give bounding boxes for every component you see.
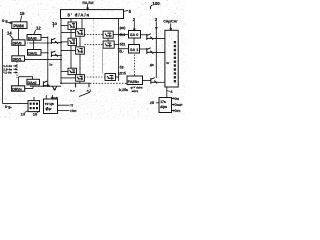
right bus xyxy=(155,29,157,78)
chain wire M2-M3 xyxy=(102,48,104,73)
label BL xyxy=(119,50,124,54)
label 10 xyxy=(52,21,57,26)
text DAC0 xyxy=(28,36,37,40)
switch box M2 xyxy=(103,41,114,48)
chain wire R1-R2 xyxy=(79,36,81,47)
wire DAC1 out xyxy=(41,52,48,54)
label B2 xyxy=(120,66,125,70)
box DRV0 xyxy=(12,40,25,46)
left bus horizontal to box13 xyxy=(2,102,28,104)
box DRV1 xyxy=(12,56,25,61)
transistor Qa xyxy=(51,38,58,44)
label 14 xyxy=(7,31,12,36)
tap wire R3 xyxy=(61,77,76,79)
label 1n xyxy=(49,63,52,67)
wire Qb to bus xyxy=(59,54,61,56)
switch glyph L2 xyxy=(70,40,76,45)
glyph row1 U16 xyxy=(45,102,55,106)
label 15 xyxy=(20,11,25,16)
tap wire L2 xyxy=(61,41,68,43)
arrow 3 down xyxy=(155,21,157,29)
switch glyph R2 xyxy=(77,49,83,54)
wire tall box to 17a xyxy=(166,87,168,98)
node label HQ xyxy=(70,89,75,93)
label L0 xyxy=(120,33,126,37)
arrow CAp down xyxy=(170,23,172,30)
wire DRV0 out solid xyxy=(29,42,51,44)
wire M2 to bus xyxy=(114,44,118,46)
feed wire L1 xyxy=(70,19,72,22)
switch box R1 xyxy=(76,29,85,36)
diagonal wire to bus xyxy=(79,92,90,96)
label CAp/CAr xyxy=(163,20,178,24)
glyph row1 U17a xyxy=(160,100,166,104)
label Dout xyxy=(175,103,183,107)
stub wire 2 xyxy=(88,83,90,87)
wire RW xyxy=(58,110,70,112)
box PWM U15 xyxy=(12,22,27,29)
tick 10 xyxy=(52,25,54,27)
wire into DRV2 xyxy=(17,77,19,86)
chain wire L1-L2 xyxy=(70,29,72,38)
tap wire R1 xyxy=(61,32,76,34)
dashed wire R1 to M1 xyxy=(84,33,103,35)
transistor X3 xyxy=(151,78,157,84)
tall box U4 xyxy=(165,30,178,87)
label Sig xyxy=(2,19,8,23)
wire M1 to bus xyxy=(113,34,118,36)
tick box U5 to 5 xyxy=(124,10,129,11)
switch glyph R1 xyxy=(77,31,83,36)
label 12 xyxy=(36,25,41,30)
label half tb xyxy=(118,72,126,76)
switch box L2 xyxy=(68,38,77,45)
stub boxB up 1 xyxy=(45,95,47,99)
label 16 xyxy=(33,111,38,116)
dot grid U13 xyxy=(30,103,38,110)
wire M3 to bus xyxy=(116,76,119,78)
switch box L1 xyxy=(68,22,77,29)
right-center bus xyxy=(118,19,120,81)
arrow Dm xyxy=(172,98,175,99)
center bus vertical xyxy=(60,19,62,84)
label half gb xyxy=(119,88,128,92)
chain wire SA1-FA dashed xyxy=(134,55,136,77)
chain wire R2-R3 xyxy=(79,54,81,74)
label 5 xyxy=(129,9,132,14)
text PWM xyxy=(13,23,24,28)
wire DRV2 out xyxy=(25,86,33,88)
box U17a xyxy=(159,98,172,113)
arrow Sig to PWM xyxy=(8,22,12,24)
feed wire R1 xyxy=(81,19,83,29)
switch glyph M2 xyxy=(105,43,112,47)
label 3 xyxy=(155,17,158,22)
left bus vertical xyxy=(1,29,3,103)
tick 13 xyxy=(25,111,28,113)
switch glyph L3 xyxy=(70,70,76,74)
wire TR xyxy=(58,104,70,106)
wire SA0 out xyxy=(141,34,147,36)
label 2 xyxy=(133,17,136,22)
leader arrow to 100 xyxy=(150,5,152,9)
wire bottom row xyxy=(30,85,61,87)
wire Qa to bus xyxy=(59,42,61,44)
tap wire L3 xyxy=(61,70,68,72)
wire DRV1 out xyxy=(25,59,62,61)
switch box R2 xyxy=(76,47,85,54)
switch box M3 xyxy=(105,74,116,81)
box DAC0 xyxy=(27,35,41,41)
label TR xyxy=(70,104,74,108)
tick 4 xyxy=(167,90,170,93)
channel list row3 xyxy=(3,71,12,75)
arrow row1 xyxy=(13,65,16,67)
text in U5 xyxy=(68,13,91,18)
top long box U5 xyxy=(61,10,124,19)
wire X2 to tall box xyxy=(153,51,165,53)
arrow row2 xyxy=(13,68,16,70)
text DAC1 xyxy=(28,51,37,55)
glyph row2 U17a xyxy=(160,105,167,109)
label 4 xyxy=(170,89,173,94)
transistor X2 xyxy=(147,48,154,54)
chain wire SA0-SA1 xyxy=(133,38,135,45)
tap wire R2 xyxy=(61,50,76,52)
transistor Qc xyxy=(43,81,49,87)
box U13 xyxy=(28,101,40,112)
label Dm xyxy=(175,97,179,101)
switch box L3 xyxy=(68,68,77,74)
arrow Dout xyxy=(172,104,175,105)
arrow RA down xyxy=(87,4,89,9)
label B1 xyxy=(120,43,126,47)
label RAy/RAz xyxy=(82,1,94,5)
wire into DAC2 xyxy=(18,77,32,80)
channel list row1 xyxy=(3,64,12,68)
wire bus to SA1 xyxy=(119,48,129,50)
chain wire L2-L3 xyxy=(70,46,72,69)
arrow Dlast xyxy=(172,110,175,111)
text DRV2 xyxy=(12,87,22,91)
wire DAC0 out xyxy=(41,36,48,86)
label D6 xyxy=(150,63,154,67)
stub R3 xyxy=(79,81,81,83)
node label W1 xyxy=(87,89,92,93)
stub wire 1 xyxy=(75,83,77,87)
text DRV0 xyxy=(13,41,22,45)
label Sig2 xyxy=(5,105,12,109)
tap wire L1 xyxy=(61,25,68,27)
switch box M1 xyxy=(103,31,113,38)
box DAC2 xyxy=(27,79,40,85)
tick 15 to PWM xyxy=(20,16,21,22)
note under FA xyxy=(130,86,142,90)
label Tout xyxy=(51,96,58,100)
channel list row2 xyxy=(3,67,12,71)
wire DAC0 to DAC1 xyxy=(33,40,35,49)
wire PWM to DRV0 xyxy=(17,29,19,40)
text SA0 xyxy=(130,33,138,37)
dashed repeat wire xyxy=(16,62,18,79)
arrow row3 xyxy=(13,72,16,74)
box DRV2 xyxy=(12,86,25,91)
chain wire M1-M2 xyxy=(107,38,109,41)
arrow 2 to SA0 xyxy=(133,21,135,30)
dashed wire R3 to M3 xyxy=(84,76,105,78)
stub boxB up 2 xyxy=(51,95,53,99)
tick 12 to DAC0 xyxy=(34,30,36,35)
tick 14 to DRV0 xyxy=(10,35,14,40)
note under FA 2 xyxy=(132,89,139,93)
scan noise overlay xyxy=(0,0,1,1)
box SA1 xyxy=(129,45,140,54)
label 13 xyxy=(21,111,26,116)
label 100 xyxy=(152,1,160,6)
transistor Qb xyxy=(51,51,58,57)
label K2 xyxy=(120,26,126,30)
ground marks xyxy=(52,86,56,89)
label RW xyxy=(70,109,76,113)
box DAC1 xyxy=(28,50,42,56)
switch box R3 xyxy=(76,75,85,82)
wire X3 to tall box xyxy=(157,81,165,83)
wire DRV0 to DRV1 xyxy=(17,45,19,56)
box FA xyxy=(127,76,143,85)
wire FA out xyxy=(143,79,151,81)
label Dlast xyxy=(175,109,181,113)
dashed wire R2 to M2 xyxy=(84,44,103,46)
text SA1 xyxy=(130,48,138,52)
text DAC2 xyxy=(28,81,37,85)
junction dots xyxy=(47,34,157,87)
label 25 xyxy=(150,101,154,105)
arrow 25 to 17a xyxy=(156,102,159,104)
mark in U4 xyxy=(166,61,170,65)
text DRV1 xyxy=(13,57,22,61)
stub boxA up xyxy=(33,97,35,101)
vertical text in U4 xyxy=(174,41,176,84)
switch glyph M3 xyxy=(107,76,114,80)
wire X1 to bus xyxy=(153,37,165,39)
wire SA1 out xyxy=(140,48,147,50)
wire DRV0 out xyxy=(25,42,29,44)
switch glyph L1 xyxy=(70,24,76,29)
wire bus to SA0 xyxy=(119,34,129,36)
transistor X1 xyxy=(147,34,154,40)
tick 16 xyxy=(37,111,40,113)
faint fold line xyxy=(93,19,95,83)
bottom bus dashed xyxy=(90,82,127,84)
glyph row2 U16 xyxy=(45,106,52,111)
switch glyph R3 xyxy=(77,76,83,80)
switch glyph M1 xyxy=(105,33,112,37)
box U16 xyxy=(44,99,58,114)
text FA xyxy=(128,79,140,84)
bottom bus solid xyxy=(61,82,90,84)
box SA0 xyxy=(129,31,141,39)
